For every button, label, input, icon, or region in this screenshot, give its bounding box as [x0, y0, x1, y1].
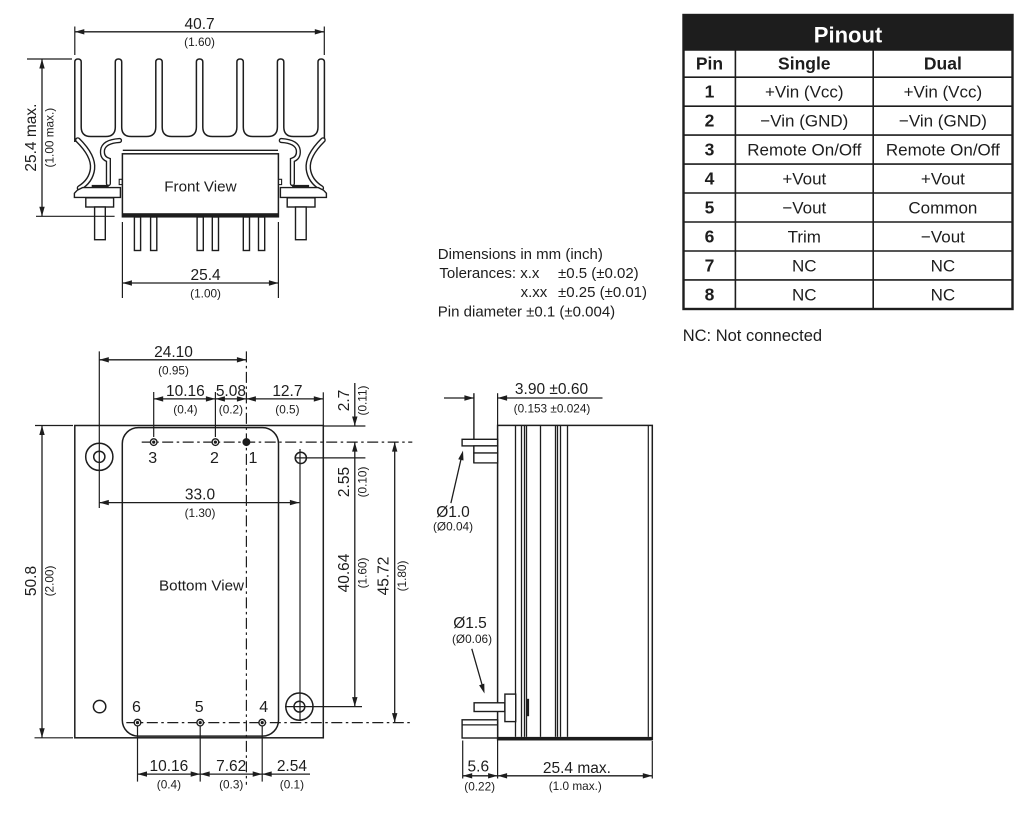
dim 50.8 (2.00): [23, 426, 73, 738]
pinout row pin 6: [705, 227, 966, 247]
body left tab: [119, 179, 122, 184]
hole bottom-left: [93, 700, 105, 712]
dim 12.7 (0.5): [246, 383, 323, 426]
pin row 4-5-6 centerline: [126, 722, 412, 724]
dim 40.64 (1.60): [336, 553, 370, 592]
svg-text:Bottom View: Bottom View: [159, 578, 244, 595]
svg-text:3: 3: [148, 450, 157, 467]
svg-text:12.7: 12.7: [272, 383, 302, 400]
pinout row pin 4: [705, 169, 966, 189]
svg-text:−Vin (GND): −Vin (GND): [899, 112, 987, 131]
heatsink left outer wing: [78, 140, 93, 188]
bottom view label: [159, 578, 244, 595]
heatsink base underside: [123, 149, 278, 151]
bottom view module body outline: [122, 428, 278, 736]
dim 25.4 (1.00): [122, 222, 278, 301]
svg-text:(1.60): (1.60): [355, 558, 369, 589]
svg-text:3.90 ±0.60: 3.90 ±0.60: [515, 381, 589, 398]
svg-text:Ø1.5: Ø1.5: [453, 615, 487, 632]
label Ø1.5: [452, 615, 492, 694]
dim 5.08 (0.2): [215, 383, 246, 417]
svg-text:(0.4): (0.4): [157, 778, 181, 792]
left nut: [86, 198, 114, 207]
vertical centerline pin 1-4: [245, 351, 247, 784]
svg-text:Dual: Dual: [924, 54, 962, 74]
front pin 1: [134, 217, 140, 251]
dim 3.90 ±0.60: [444, 381, 603, 416]
front pin 4: [212, 217, 218, 251]
dim 5.6 (0.22): [463, 741, 498, 794]
pinout row pin 1: [705, 82, 983, 102]
flange bottom plate: [462, 720, 498, 738]
svg-text:2.54: 2.54: [277, 758, 308, 775]
svg-text:±0.5 (±0.02): ±0.5 (±0.02): [558, 265, 639, 282]
svg-text:−Vout: −Vout: [921, 228, 965, 247]
pin 1: [243, 439, 257, 467]
svg-text:40.7: 40.7: [185, 16, 215, 33]
svg-text:NC: NC: [931, 256, 956, 275]
svg-text:1: 1: [248, 450, 257, 467]
svg-text:3: 3: [705, 140, 715, 160]
svg-text:5.6: 5.6: [468, 759, 490, 776]
svg-text:25.4: 25.4: [191, 267, 222, 284]
svg-text:6: 6: [705, 227, 715, 247]
svg-text:7.62: 7.62: [216, 758, 246, 775]
pin 5 extension: [199, 727, 201, 782]
svg-text:−Vin (GND): −Vin (GND): [760, 112, 848, 131]
pin 6 extension: [137, 727, 139, 782]
NC note: [683, 327, 822, 345]
svg-text:(0.10): (0.10): [355, 467, 369, 498]
pin 2: [210, 439, 219, 467]
mounting hole top-left: [86, 443, 113, 470]
pinout row pin 8: [705, 284, 956, 304]
dim 10.16 (0.4) top: [154, 383, 216, 437]
pinout column headers: [696, 54, 962, 74]
svg-text:(1.00 max.): (1.00 max.): [43, 108, 57, 168]
dim 10.16 (0.4) bottom: [138, 758, 201, 792]
dim 2.7 (0.11): [324, 383, 369, 426]
svg-text:25.4 max.: 25.4 max.: [23, 104, 40, 172]
svg-text:Trim: Trim: [788, 228, 821, 247]
svg-text:4: 4: [259, 699, 268, 716]
dim 2.54 (0.1): [262, 758, 310, 792]
front view heatsink fins: [75, 59, 325, 142]
pin row 1-2-3 centerline: [142, 441, 413, 443]
pinout table grid: [684, 50, 1013, 309]
hole-to-hole vertical line: [299, 449, 301, 721]
dim 24.10 (0.95): [99, 344, 246, 378]
svg-text:Tolerances: x.x: Tolerances: x.x: [439, 265, 540, 282]
svg-text:+Vout: +Vout: [782, 170, 826, 189]
svg-text:33.0: 33.0: [185, 487, 216, 504]
right nut: [287, 198, 315, 207]
svg-text:(0.2): (0.2): [219, 402, 243, 416]
svg-text:8: 8: [705, 284, 715, 304]
pin top side view: [462, 439, 498, 463]
side view heatsink fin lines: [516, 425, 649, 737]
svg-text:x.xx: x.xx: [521, 284, 548, 301]
svg-text:+Vout: +Vout: [921, 170, 965, 189]
svg-text:(0.153 ±0.024): (0.153 ±0.024): [514, 402, 591, 416]
svg-text:Pinout: Pinout: [814, 23, 883, 48]
svg-text:NC: NC: [931, 285, 956, 304]
svg-text:(1.60): (1.60): [184, 35, 215, 49]
dim 2.55 (0.10) and 40.64 line: [336, 442, 370, 706]
svg-text:(0.1): (0.1): [280, 778, 304, 792]
svg-text:10.16: 10.16: [150, 758, 189, 775]
pin 4 extension: [261, 727, 263, 782]
svg-text:Ø1.0: Ø1.0: [436, 504, 470, 521]
svg-text:2: 2: [705, 111, 715, 131]
pin 6: [132, 699, 141, 726]
dim 25.4 max (1.0 max.): [498, 741, 653, 793]
svg-text:NC: NC: [792, 285, 817, 304]
svg-text:24.10: 24.10: [154, 344, 193, 361]
pinout table header: [684, 15, 1013, 309]
dim 40.7 (1.60): [75, 16, 324, 55]
svg-text:(0.4): (0.4): [173, 402, 197, 416]
svg-text:(0.5): (0.5): [275, 402, 299, 416]
svg-text:5: 5: [195, 699, 204, 716]
side view body: [498, 425, 653, 740]
dim 33.0 (1.30): [99, 487, 299, 520]
dim 7.62 (0.3): [200, 758, 262, 792]
reference target top-right: [295, 452, 366, 463]
front pin 5: [243, 217, 249, 251]
svg-text:Pin diameter ±0.1 (±0.004): Pin diameter ±0.1 (±0.004): [438, 304, 615, 321]
svg-text:+Vin (Vcc): +Vin (Vcc): [904, 83, 983, 102]
svg-text:7: 7: [705, 255, 715, 275]
svg-text:Pin: Pin: [696, 54, 723, 74]
svg-text:(0.11): (0.11): [355, 385, 369, 415]
svg-text:(1.0 max.): (1.0 max.): [549, 779, 602, 793]
pin 3: [148, 439, 157, 467]
svg-text:±0.25 (±0.01): ±0.25 (±0.01): [558, 284, 647, 301]
front pin 6: [259, 217, 265, 251]
pin bottom side view: [474, 694, 529, 722]
left mounting ear: [74, 185, 120, 198]
tolerance notes: [438, 246, 647, 321]
svg-text:Remote On/Off: Remote On/Off: [747, 141, 861, 160]
bottom view flange outline: [75, 426, 323, 738]
svg-text:40.64: 40.64: [336, 553, 353, 592]
svg-text:+Vin (Vcc): +Vin (Vcc): [765, 83, 844, 102]
body right tab: [278, 179, 281, 184]
svg-text:45.72: 45.72: [376, 557, 393, 596]
pinout row pin 3: [705, 140, 1001, 160]
svg-text:(1.00): (1.00): [190, 287, 221, 301]
mounting hole centerline: [98, 351, 100, 508]
front view label: [164, 179, 236, 196]
svg-text:6: 6: [132, 699, 141, 716]
svg-text:NC: NC: [792, 256, 817, 275]
svg-text:(2.00): (2.00): [43, 566, 57, 597]
svg-text:−Vout: −Vout: [782, 199, 826, 218]
svg-text:1: 1: [705, 82, 715, 102]
heatsink right inner wing: [281, 141, 298, 184]
svg-text:Dimensions in mm (inch): Dimensions in mm (inch): [438, 246, 603, 263]
front pin 2: [151, 217, 157, 251]
svg-text:(1.30): (1.30): [185, 506, 216, 520]
svg-text:Front View: Front View: [164, 179, 236, 196]
right mounting ear: [280, 185, 326, 198]
svg-text:5: 5: [705, 198, 715, 218]
heatsink right outer wing: [308, 140, 323, 188]
pinout row pin 5: [705, 198, 978, 218]
flange edge line: [473, 393, 475, 463]
svg-text:(1.80): (1.80): [395, 561, 409, 592]
pinout row pin 7: [705, 255, 956, 275]
svg-text:NC: Not connected: NC: Not connected: [683, 327, 822, 345]
front pin 3: [197, 217, 203, 251]
svg-text:(Ø0.06): (Ø0.06): [452, 632, 492, 646]
left screw: [95, 207, 106, 240]
front view body: [122, 154, 278, 217]
svg-text:2: 2: [210, 450, 219, 467]
svg-text:Common: Common: [908, 199, 977, 218]
svg-text:(0.95): (0.95): [158, 364, 189, 378]
svg-text:(0.3): (0.3): [219, 778, 243, 792]
heatsink left inner wing: [102, 141, 119, 184]
svg-text:10.16: 10.16: [166, 383, 205, 400]
pin 4: [259, 699, 268, 726]
svg-text:2.55: 2.55: [336, 467, 353, 497]
side body left extension: [497, 393, 499, 778]
right screw: [296, 207, 307, 240]
mounting hole bottom-right: [285, 693, 362, 720]
svg-text:2.7: 2.7: [336, 390, 353, 412]
pinout row pin 2: [705, 111, 987, 131]
svg-text:(Ø0.04): (Ø0.04): [433, 520, 473, 534]
svg-text:50.8: 50.8: [23, 566, 40, 596]
svg-text:Remote On/Off: Remote On/Off: [886, 141, 1000, 160]
svg-text:(0.22): (0.22): [464, 780, 495, 794]
svg-text:Single: Single: [778, 54, 831, 74]
svg-text:5.08: 5.08: [216, 383, 246, 400]
dim 45.72 (1.80): [376, 442, 410, 722]
dim 25.4 max (1.00 max.): [23, 59, 115, 216]
svg-text:25.4 max.: 25.4 max.: [543, 760, 611, 777]
svg-text:4: 4: [705, 169, 715, 189]
label Ø1.0: [433, 451, 473, 534]
pin 5: [195, 699, 204, 726]
